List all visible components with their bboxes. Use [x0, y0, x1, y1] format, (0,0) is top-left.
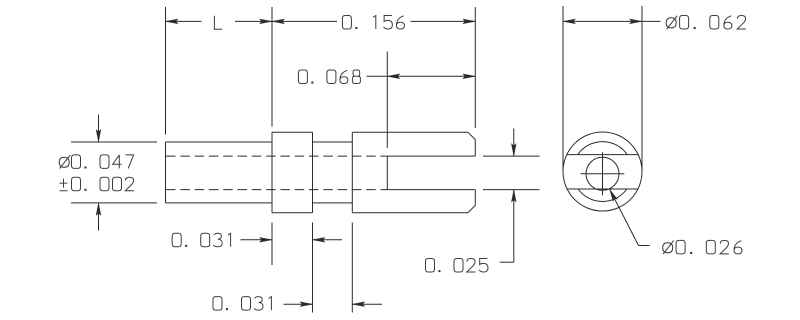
collar / shoulder — [272, 132, 313, 212]
dimension 0.068 (slot depth) — [298, 52, 475, 148]
dimension 0.025 (slot width) — [426, 129, 540, 273]
barrel between collar and fork — [313, 142, 353, 203]
dimension 0.031 (barrel length) — [213, 223, 382, 313]
end view: chamfer circle arcs — [578, 142, 627, 202]
dimension 0.156 — [272, 7, 475, 128]
hidden bore lines (dashed) — [166, 156, 387, 190]
end view: outer circle Ø0.062 — [563, 132, 642, 211]
fork body with chamfered tips — [352, 132, 475, 212]
tube body (Ø0.047 shank) — [166, 142, 273, 203]
end view: center mark — [581, 152, 625, 195]
dimension Ø0.062 — [563, 6, 746, 172]
dimension Ø0.047 ±0.002 — [59, 115, 157, 231]
dimension L — [166, 7, 273, 135]
dimension 0.031 (collar width) — [172, 223, 342, 313]
end view: slot face lines — [567, 155, 638, 189]
leader Ø0.026 (bore callout) — [610, 189, 742, 254]
end view: bore circle Ø0.026 — [586, 157, 619, 190]
